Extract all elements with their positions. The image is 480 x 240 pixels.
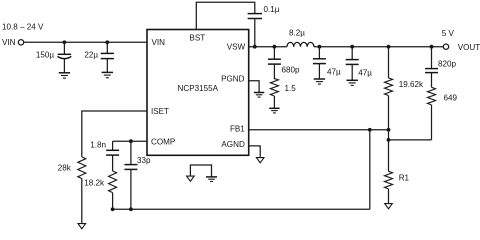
ground C6 (earth)	[347, 80, 358, 85]
junction FB jog	[387, 138, 391, 142]
junction VOUT rail / R3	[387, 45, 391, 49]
ground R1 (triangle)	[385, 204, 393, 209]
svg-text:820p: 820p	[438, 59, 457, 68]
wire comp return vertical	[369, 130, 371, 210]
capacitor C1 150u (polarized)	[36, 42, 71, 72]
junction VSW rail / C5	[318, 45, 322, 49]
junction VOUT rail / C7	[430, 45, 434, 49]
svg-text:FB1: FB1	[230, 124, 245, 133]
svg-text:PGND: PGND	[221, 75, 245, 84]
svg-text:BST: BST	[189, 34, 205, 43]
ground C2 (earth)	[102, 72, 113, 77]
ground C1 (earth)	[59, 73, 70, 78]
ground R5 (triangle)	[78, 224, 86, 229]
resistor R2 1.5 snubber	[270, 78, 296, 108]
svg-text:VSW: VSW	[227, 42, 246, 51]
capacitor C6 47u	[346, 47, 373, 80]
wire jog to R4	[389, 139, 432, 141]
svg-text:COMP: COMP	[151, 137, 175, 146]
svg-text:649: 649	[444, 93, 458, 102]
capacitor C3 0.1u bootstrap	[248, 5, 280, 47]
wire VOUT rail right	[314, 46, 443, 48]
capacitor C7 820p feedforward	[425, 47, 457, 88]
junction input rail / C1	[63, 40, 67, 44]
svg-text:8.2µ: 8.2µ	[289, 28, 305, 37]
svg-text:VIN: VIN	[152, 38, 166, 47]
junction FB/comp return	[368, 128, 372, 132]
wire FB1 net	[249, 129, 389, 131]
junction input rail / C2	[105, 40, 109, 44]
ground snubber (earth)	[269, 108, 279, 113]
resistor R4 649	[428, 87, 458, 140]
capacitor C2 22u	[84, 42, 114, 72]
ground PGND (earth)	[254, 93, 264, 98]
node VIN terminal	[2, 38, 24, 47]
wire AGND stub	[249, 146, 261, 158]
junction R6/bottom rail	[111, 207, 115, 211]
wire ground tie below IC	[190, 165, 211, 177]
junction COMP/33p	[129, 139, 133, 143]
svg-text:33p: 33p	[137, 156, 151, 165]
svg-text:5 V: 5 V	[442, 29, 455, 38]
svg-text:10.8 – 24 V: 10.8 – 24 V	[2, 22, 44, 31]
svg-text:R1: R1	[399, 173, 410, 182]
svg-text:150µ: 150µ	[36, 51, 55, 60]
ground C5 (earth)	[314, 79, 325, 84]
resistor R5 28k	[58, 157, 86, 224]
wire input rail VIN to IC	[24, 41, 147, 43]
junction VSW/snubber	[273, 45, 277, 49]
svg-text:19.62k: 19.62k	[399, 80, 424, 89]
junction C9/bottom rail	[129, 207, 133, 211]
capacitor C5 47u	[313, 47, 341, 79]
svg-text:VIN: VIN	[2, 38, 16, 47]
capacitor C9 33p	[124, 141, 151, 209]
junction VSW rail / C6	[350, 45, 354, 49]
svg-text:1.8n: 1.8n	[90, 140, 106, 149]
svg-text:22µ: 22µ	[84, 51, 98, 60]
svg-text:NCP3155A: NCP3155A	[178, 84, 219, 93]
resistor R6 18.2k	[84, 171, 116, 209]
op-amp U1 NCP3155A IC body	[147, 30, 249, 156]
wire ISET to R5	[82, 111, 147, 157]
ground tie left (triangle)	[187, 176, 195, 181]
svg-text:0.1µ: 0.1µ	[264, 5, 280, 14]
wire BST loop	[196, 2, 255, 29]
junction FB/R3	[387, 128, 391, 132]
svg-text:AGND: AGND	[221, 140, 245, 149]
svg-text:ISET: ISET	[151, 107, 169, 116]
svg-text:680p: 680p	[282, 66, 301, 75]
ground AGND (triangle)	[256, 158, 264, 163]
wire COMP net	[113, 140, 147, 142]
wire VSW rail left	[249, 46, 287, 48]
svg-text:1.5: 1.5	[285, 84, 297, 93]
node VOUT terminal	[443, 43, 480, 52]
svg-text:47µ: 47µ	[327, 67, 341, 76]
wire FB down jog	[388, 130, 390, 140]
svg-text:VOUT: VOUT	[458, 43, 480, 52]
capacitor C4 680p snubber	[268, 47, 300, 80]
resistor R3 19.62k feedback upper	[385, 47, 425, 130]
inductor L1 8.2u	[287, 28, 314, 46]
wire PGND stub	[249, 81, 259, 93]
capacitor C8 1.8n	[90, 140, 119, 171]
wire bottom rail	[113, 208, 370, 210]
ground tie right (earth)	[206, 177, 217, 182]
svg-text:18.2k: 18.2k	[84, 179, 105, 188]
svg-text:28k: 28k	[58, 164, 72, 173]
junction VSW/BST cap	[253, 45, 257, 49]
svg-text:47µ: 47µ	[358, 68, 372, 77]
resistor R1 feedback lower	[385, 140, 410, 204]
